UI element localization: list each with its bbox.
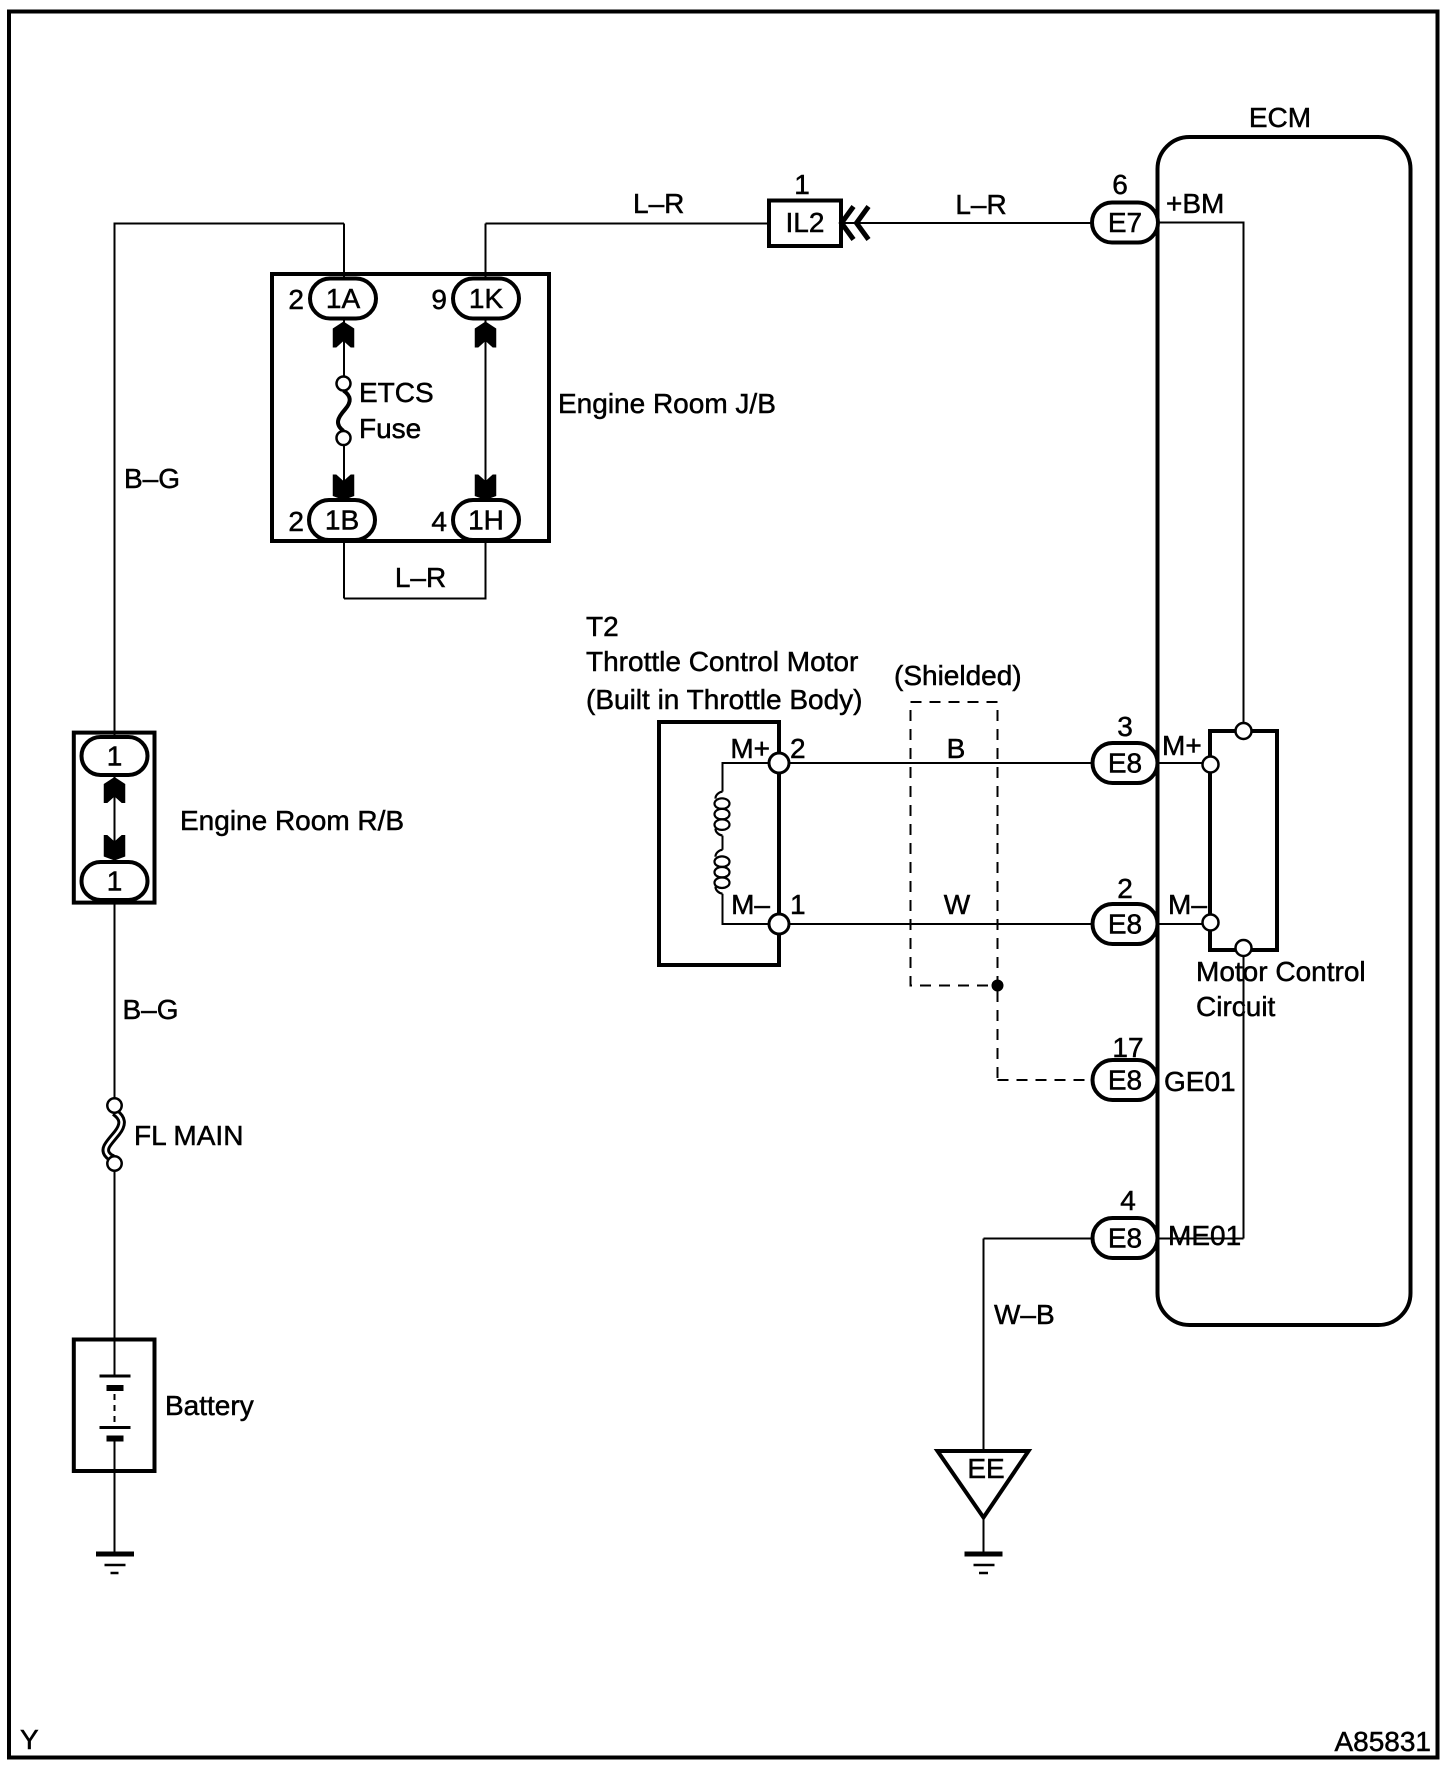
svg-text:(Shielded): (Shielded): [894, 660, 1022, 691]
svg-text:4: 4: [431, 506, 447, 537]
svg-text:9: 9: [431, 284, 447, 315]
svg-text:2: 2: [790, 733, 806, 764]
svg-text:IL2: IL2: [786, 207, 825, 238]
svg-text:(Built in Throttle Body): (Built in Throttle Body): [586, 684, 863, 715]
svg-text:Motor Control: Motor Control: [1196, 956, 1366, 987]
svg-text:2: 2: [288, 284, 304, 315]
svg-text:E8: E8: [1108, 1223, 1142, 1254]
svg-text:Throttle Control Motor: Throttle Control Motor: [586, 646, 858, 677]
svg-text:Engine Room J/B: Engine Room J/B: [558, 388, 776, 419]
svg-text:2: 2: [288, 506, 304, 537]
svg-text:1A: 1A: [326, 283, 361, 314]
svg-text:1K: 1K: [469, 283, 504, 314]
svg-text:E7: E7: [1108, 207, 1142, 238]
svg-text:1: 1: [107, 741, 123, 772]
svg-text:Battery: Battery: [165, 1390, 254, 1421]
svg-text:GE01: GE01: [1164, 1066, 1236, 1097]
svg-text:M–: M–: [1168, 889, 1207, 920]
svg-text:Y: Y: [20, 1724, 39, 1755]
svg-text:M–: M–: [731, 889, 770, 920]
svg-text:ME01: ME01: [1168, 1220, 1241, 1251]
svg-text:E8: E8: [1108, 1065, 1142, 1096]
svg-text:ETCS: ETCS: [359, 377, 434, 408]
svg-text:4: 4: [1120, 1185, 1136, 1216]
svg-text:1: 1: [790, 889, 806, 920]
svg-text:A85831: A85831: [1334, 1726, 1431, 1757]
svg-text:Engine Room R/B: Engine Room R/B: [180, 805, 404, 836]
svg-text:B: B: [947, 733, 966, 764]
svg-text:E8: E8: [1108, 909, 1142, 940]
svg-text:L–R: L–R: [955, 189, 1006, 220]
svg-text:+BM: +BM: [1166, 188, 1224, 219]
svg-text:Fuse: Fuse: [359, 413, 421, 444]
svg-text:L–R: L–R: [633, 188, 684, 219]
svg-text:M+: M+: [730, 733, 770, 764]
svg-text:1: 1: [107, 866, 123, 897]
svg-text:2: 2: [1117, 873, 1133, 904]
svg-text:M+: M+: [1162, 730, 1202, 761]
svg-text:FL MAIN: FL MAIN: [134, 1120, 243, 1151]
svg-text:3: 3: [1117, 711, 1133, 742]
svg-text:6: 6: [1112, 169, 1128, 200]
svg-text:1B: 1B: [325, 505, 359, 536]
svg-text:B–G: B–G: [124, 463, 180, 494]
svg-text:B–G: B–G: [122, 994, 178, 1025]
svg-text:W: W: [944, 889, 971, 920]
svg-text:17: 17: [1112, 1032, 1143, 1063]
svg-text:EE: EE: [967, 1453, 1004, 1484]
svg-text:1H: 1H: [468, 505, 504, 536]
svg-text:1: 1: [794, 169, 810, 200]
svg-text:L–R: L–R: [395, 562, 446, 593]
svg-text:ECM: ECM: [1249, 102, 1311, 133]
svg-text:E8: E8: [1108, 748, 1142, 779]
svg-text:W–B: W–B: [994, 1299, 1055, 1330]
svg-text:T2: T2: [586, 611, 619, 642]
svg-text:Circuit: Circuit: [1196, 991, 1276, 1022]
